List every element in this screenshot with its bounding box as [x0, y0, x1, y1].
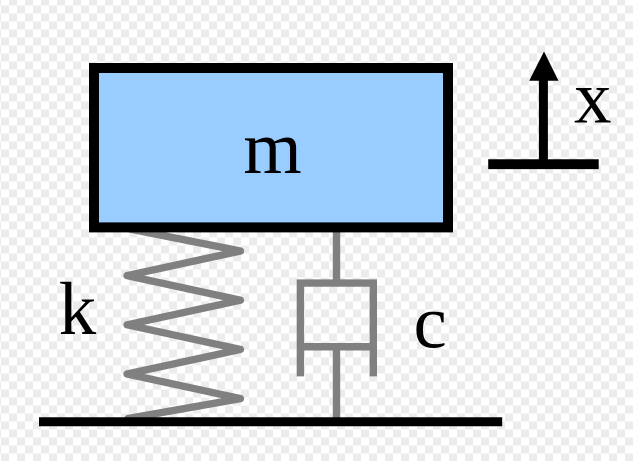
displacement arrow x : reference bar	[488, 159, 599, 169]
damper c : top rod from mass to cylinder	[333, 230, 340, 283]
svg-text:x: x	[574, 57, 612, 140]
mass block m (blue rectangle)	[94, 68, 448, 227]
svg-text:m: m	[243, 107, 301, 190]
damper c : cylinder (inverted U)	[300, 283, 373, 376]
displacement arrow x : head	[529, 52, 558, 81]
ground line	[39, 417, 502, 426]
damper c : bottom rod from piston to ground	[333, 347, 340, 420]
svg-text:c: c	[413, 282, 446, 365]
svg-text:k: k	[59, 268, 97, 351]
damper c : piston plate	[298, 343, 376, 351]
spring k (zigzag coil between mass and ground)	[127, 229, 241, 419]
displacement arrow x : shaft	[539, 75, 548, 163]
